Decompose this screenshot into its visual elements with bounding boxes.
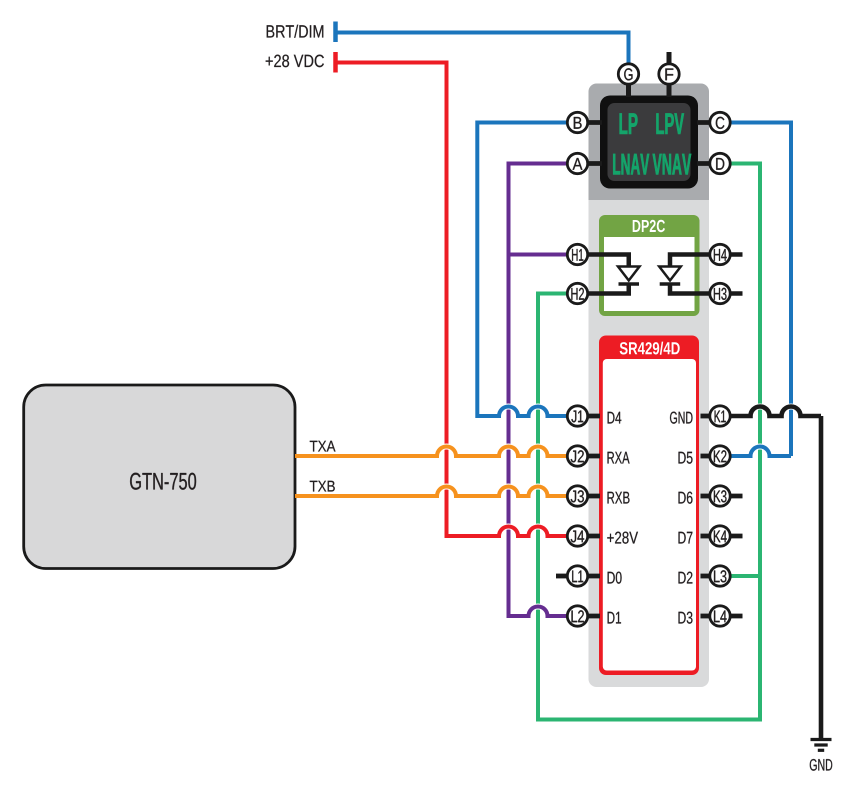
stub pin K1 [701, 414, 713, 419]
display unit black bezel [600, 96, 698, 189]
stub pin F top free end [667, 52, 672, 66]
stub pin L3 [701, 574, 713, 579]
pin circles [567, 64, 730, 626]
wire pin C blue vertical run [722, 123, 791, 457]
pin B label [574, 117, 582, 129]
SR429 pin name D3 [679, 612, 693, 624]
diode D-right in DP2C [670, 255, 743, 294]
pin L4 label [714, 611, 727, 623]
SR429 pin name D0 [608, 572, 622, 584]
ground symbol [811, 740, 832, 751]
pin K3 circle [710, 486, 730, 506]
display text VNAV [653, 154, 692, 175]
pin H2 label [571, 288, 584, 300]
wire C hop section into K2 [722, 447, 791, 457]
SR429 pin name GND [670, 412, 693, 424]
pin J1 circle [567, 406, 587, 426]
display screen [608, 103, 691, 181]
SR429 pin name D2 [679, 572, 693, 584]
pin H4 label [714, 249, 727, 261]
pin D label [716, 158, 724, 170]
stub pin J1 [574, 414, 600, 419]
wire GND black vertical run [819, 416, 824, 740]
wire TXB orange run [295, 494, 428, 498]
pin K4 label [714, 531, 727, 543]
pin B circle [567, 112, 587, 132]
pin K1 label [715, 411, 726, 423]
stub pin J4 [574, 534, 600, 539]
label TXB [310, 481, 335, 492]
pin L3 label [714, 570, 726, 582]
stub pin F to display [667, 80, 672, 97]
label SR429/4D [620, 342, 680, 355]
SR429 pin name D1 [608, 612, 621, 624]
stub pin D [697, 161, 714, 166]
annunciator panel gray housing (top, medium gray) [589, 84, 710, 201]
adapter panel gray housing (bottom, light gray) [589, 200, 710, 687]
pin K3 label [714, 490, 727, 502]
wire hop casing TXA [429, 447, 555, 457]
pin J4 circle [567, 526, 587, 546]
stub pin J2 [574, 454, 600, 459]
pin J2 circle [567, 446, 587, 466]
wire B hop section into J1 [488, 407, 575, 417]
pin K2 label [714, 450, 727, 462]
wire purple hop section into L2 [518, 607, 575, 617]
stub pin L4 free end [701, 614, 713, 619]
pin L2 label [572, 610, 584, 622]
stub pin G to display [626, 80, 631, 97]
pin H2 circle [567, 283, 587, 303]
pin H1 label [572, 249, 583, 261]
SR429 pin name +28V [607, 532, 638, 544]
display text LNAV [613, 154, 649, 175]
wire hop casing J1 blue [491, 407, 555, 417]
wire hop casing L2 purple [521, 607, 555, 617]
pin L1 label [572, 571, 583, 583]
wire +28V hop section into J4 [488, 527, 575, 537]
wire +28 VDC red vertical run [336, 63, 491, 537]
label DP2C [633, 220, 665, 232]
pin L3 circle [710, 566, 730, 586]
wire green tee to L3 [722, 574, 760, 578]
display text LPV [656, 113, 684, 134]
wire hop casing +28V red [491, 527, 555, 537]
pin J3 circle [567, 486, 587, 506]
diode D-left in DP2C [569, 255, 629, 294]
wire pin A purple vertical run [509, 164, 576, 617]
pin H1 circle [567, 244, 587, 264]
SR429 pin name D5 [679, 452, 693, 464]
DP2C isolator module green box [599, 215, 700, 316]
pin A circle [567, 153, 587, 173]
wire purple tee to H1 [509, 253, 576, 257]
label GND (ground) [810, 759, 832, 771]
stub pin L1 free end [556, 574, 572, 579]
stub pin L2 [574, 614, 600, 619]
pin C circle [710, 112, 730, 132]
pin K4 circle [710, 526, 730, 546]
pin F label [665, 69, 673, 81]
pin J4 label [571, 531, 584, 543]
wire hop casing K1 black [744, 407, 807, 417]
wire BRT/DIM terminal tick [333, 22, 338, 43]
stub pin K3 free end [701, 494, 713, 499]
wire pin B blue vertical run [477, 123, 575, 417]
wire hop casing TXB [429, 487, 555, 497]
pin G circle [618, 64, 638, 84]
wire pin D green run to H2 [538, 164, 760, 720]
wire TXA orange run [295, 454, 428, 458]
pin G label [624, 68, 632, 80]
pin K1 circle [710, 406, 730, 426]
wire K1 hop section to GND [722, 407, 821, 417]
wire TXA hop section into J2 [426, 447, 575, 457]
pin L2 circle [567, 606, 587, 626]
stub pin K2 [701, 454, 713, 459]
DP2C inner white area [604, 237, 695, 311]
label +28 VDC [266, 55, 324, 68]
SR429 pin name D6 [679, 492, 693, 504]
pin D circle [710, 153, 730, 173]
pin A label [573, 158, 583, 170]
pin F circle [659, 64, 679, 84]
SR429/4D adapter red box [599, 336, 699, 676]
wire hop casing K2 blue [744, 447, 777, 457]
label TXA [310, 441, 336, 452]
stub pin A [574, 161, 602, 166]
pin L1 circle [567, 566, 587, 586]
SR429 pin name RXA [608, 452, 630, 464]
label GTN-750 [130, 473, 196, 490]
pin H3 label [714, 288, 727, 300]
stub pin C [697, 120, 714, 125]
wire BRT/DIM blue to pin G [336, 33, 629, 64]
stub pin K4 free end [701, 534, 713, 539]
SR429 pin name D4 [608, 412, 622, 424]
stub pin J3 [574, 494, 600, 499]
wire TXB hop section into J3 [426, 487, 575, 497]
stub pin B [574, 120, 602, 125]
pin J2 label [571, 450, 584, 462]
pin C label [716, 117, 725, 129]
pin J3 label [571, 490, 584, 502]
pin L4 circle [710, 606, 730, 626]
SR429 pin name D7 [679, 532, 693, 544]
pin H3 circle [710, 283, 730, 303]
display text LP [620, 113, 638, 134]
SR429/4D inner white area [603, 359, 696, 671]
wire +28 VDC terminal tick [333, 52, 338, 73]
pin K2 circle [710, 446, 730, 466]
pin J1 label [571, 411, 583, 423]
SR429 pin name RXB [608, 492, 630, 504]
GTN-750 box [24, 385, 295, 569]
pin H4 circle [710, 244, 730, 264]
label BRT/DIM [267, 25, 324, 38]
